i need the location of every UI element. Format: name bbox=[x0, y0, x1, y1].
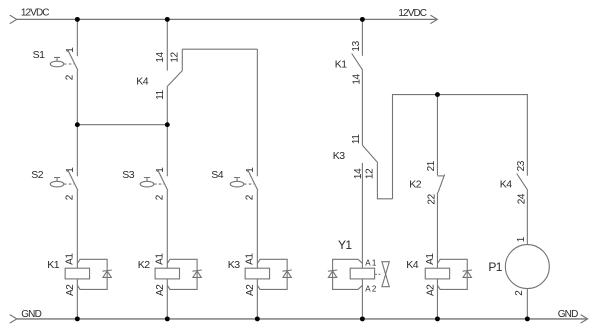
svg-text:23: 23 bbox=[516, 160, 527, 171]
svg-text:A2: A2 bbox=[245, 284, 256, 296]
svg-text:1: 1 bbox=[516, 236, 527, 242]
svg-text:A2: A2 bbox=[425, 284, 436, 296]
svg-text:K4: K4 bbox=[500, 179, 513, 191]
svg-text:A2: A2 bbox=[155, 284, 166, 296]
svg-text:K4: K4 bbox=[406, 259, 419, 271]
svg-text:21: 21 bbox=[426, 160, 437, 171]
svg-text:K3: K3 bbox=[333, 150, 346, 162]
svg-text:14: 14 bbox=[155, 52, 166, 63]
svg-text:2: 2 bbox=[245, 194, 256, 200]
svg-text:K1: K1 bbox=[335, 59, 348, 71]
svg-text:A1: A1 bbox=[65, 253, 76, 265]
svg-text:Y1: Y1 bbox=[338, 238, 352, 252]
svg-text:A2: A2 bbox=[65, 284, 76, 296]
svg-text:P1: P1 bbox=[488, 260, 502, 274]
svg-text:S3: S3 bbox=[122, 169, 135, 181]
svg-text:12: 12 bbox=[365, 168, 376, 179]
svg-text:A1: A1 bbox=[425, 253, 436, 265]
svg-text:12VDC: 12VDC bbox=[21, 7, 49, 18]
svg-text:24: 24 bbox=[517, 193, 528, 204]
svg-text:K4: K4 bbox=[136, 75, 149, 87]
svg-text:2: 2 bbox=[155, 194, 166, 200]
svg-text:K1: K1 bbox=[47, 259, 60, 271]
svg-text:A 2: A 2 bbox=[365, 285, 377, 294]
svg-text:2: 2 bbox=[514, 290, 525, 296]
svg-text:1: 1 bbox=[65, 47, 76, 53]
svg-text:1: 1 bbox=[245, 167, 256, 173]
svg-text:2: 2 bbox=[65, 74, 76, 80]
svg-text:1: 1 bbox=[65, 167, 76, 173]
svg-text:12VDC: 12VDC bbox=[398, 8, 426, 19]
svg-text:GND: GND bbox=[558, 309, 578, 320]
svg-text:S4: S4 bbox=[211, 169, 224, 181]
svg-text:14: 14 bbox=[353, 168, 364, 179]
svg-text:11: 11 bbox=[155, 89, 166, 99]
svg-text:1: 1 bbox=[155, 167, 166, 173]
svg-text:22: 22 bbox=[426, 193, 437, 204]
svg-text:12: 12 bbox=[169, 52, 180, 63]
svg-text:2: 2 bbox=[65, 194, 76, 200]
svg-text:A 1: A 1 bbox=[365, 258, 377, 267]
svg-text:K2: K2 bbox=[138, 259, 151, 271]
svg-text:13: 13 bbox=[351, 40, 362, 51]
svg-text:S1: S1 bbox=[33, 49, 46, 61]
svg-text:S2: S2 bbox=[31, 169, 44, 181]
svg-text:K3: K3 bbox=[228, 259, 241, 271]
svg-text:A1: A1 bbox=[155, 253, 166, 265]
svg-text:K2: K2 bbox=[409, 179, 422, 191]
svg-text:11: 11 bbox=[351, 134, 362, 144]
svg-text:A1: A1 bbox=[245, 253, 256, 265]
svg-text:GND: GND bbox=[21, 309, 41, 320]
svg-text:14: 14 bbox=[352, 74, 363, 85]
